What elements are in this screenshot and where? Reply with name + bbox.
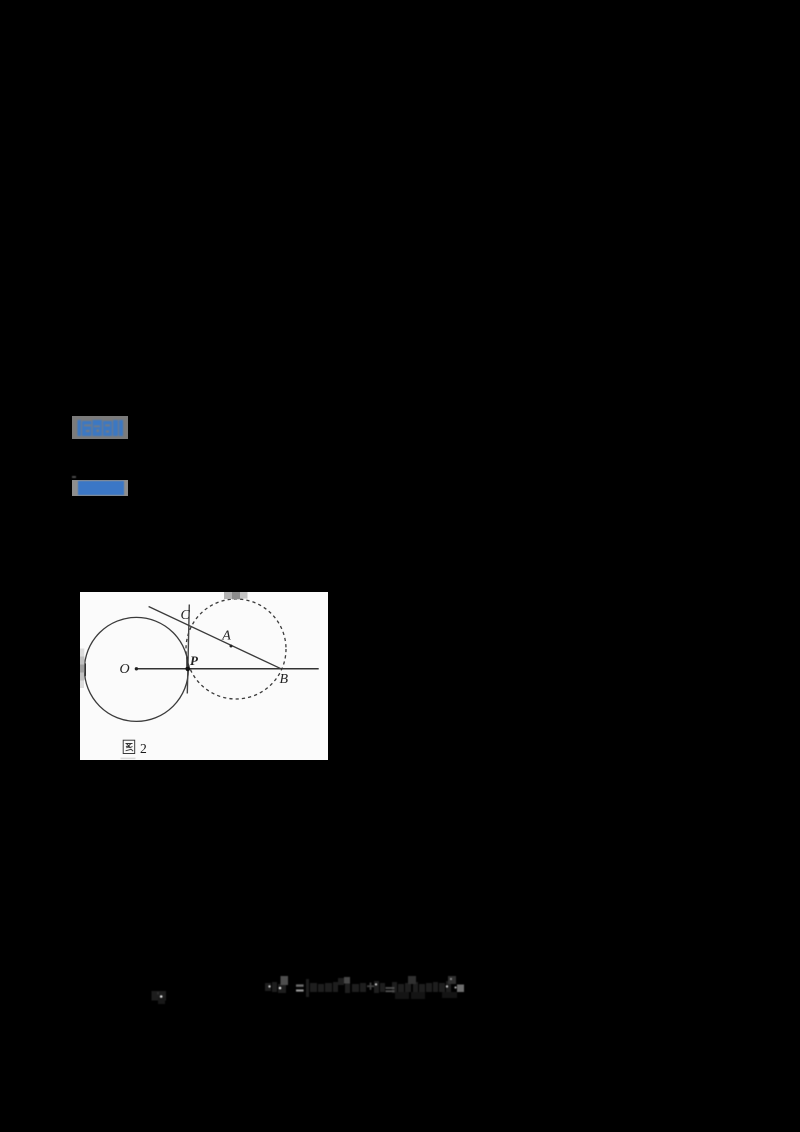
circle O (solid)	[84, 617, 188, 721]
tangent line through C and P	[187, 605, 189, 694]
dark arc segment at circle leftmost (over smudge)	[84, 663, 86, 677]
svg-text:C: C	[181, 608, 191, 623]
point O dot	[135, 667, 138, 670]
small blob near x=161	[152, 991, 167, 1001]
formula glyph noise band	[265, 976, 451, 997]
left gray smudge	[80, 649, 84, 657]
top gray smudge	[224, 592, 232, 599]
circle P (dashed)	[186, 599, 286, 699]
secant line C-A-B	[149, 607, 281, 669]
svg-text:2: 2	[140, 741, 147, 756]
faint formula row	[145, 968, 475, 1008]
svg-text:O: O	[120, 662, 130, 677]
tiny gray tick above box 2	[72, 476, 76, 479]
caption 图 box	[123, 740, 135, 753]
svg-text:A: A	[221, 628, 231, 643]
brighter fragments	[281, 976, 289, 985]
horizontal line O-P-B	[136, 668, 318, 670]
white diagram panel	[80, 592, 328, 760]
bottom light smudge	[121, 758, 136, 760]
svg-text:B: B	[280, 672, 289, 687]
point P junction blob	[185, 666, 190, 671]
bottom faint tails	[395, 992, 457, 999]
point A dot	[230, 645, 233, 648]
highlight box 2 (solid blue selection on gray)	[72, 480, 128, 496]
highlight box 1 (blurred blue Chinese label on gray)	[72, 416, 128, 439]
svg-text:P: P	[190, 653, 199, 668]
